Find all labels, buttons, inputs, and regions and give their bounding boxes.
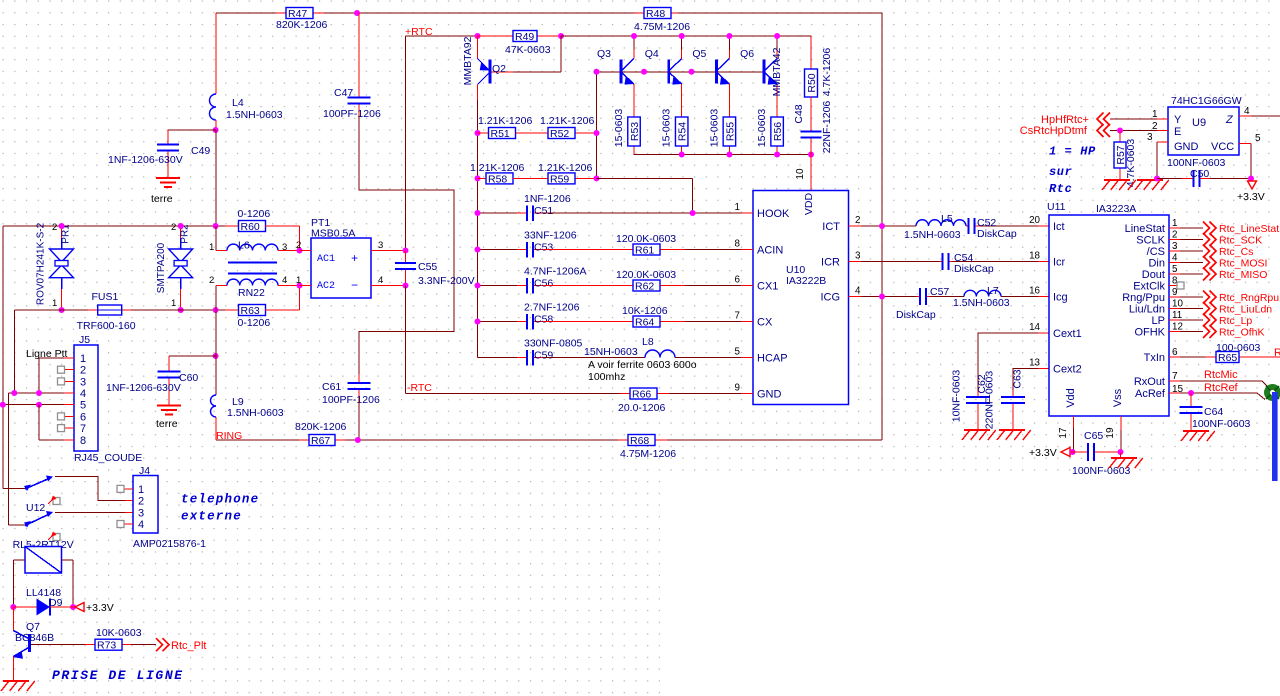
TVS PR2	[180, 226, 182, 238]
IC U9 74HC1G66GW box	[1168, 107, 1239, 155]
svg-text:2: 2	[209, 275, 214, 286]
wire CX1 row + resistor R62	[543, 285, 623, 287]
node bus C51	[475, 210, 481, 216]
svg-text:12: 12	[1172, 322, 1183, 333]
wire L9 top	[215, 310, 217, 356]
svg-text:4: 4	[1172, 253, 1178, 264]
svg-text:RJ45_COUDE: RJ45_COUDE	[74, 452, 142, 464]
svg-text:Icr: Icr	[1053, 257, 1066, 269]
svg-text:1.21K-1206: 1.21K-1206	[478, 115, 532, 127]
capacitor C48	[810, 97, 812, 132]
wire top rail y=13	[216, 12, 276, 14]
svg-text:3: 3	[80, 376, 86, 388]
no-connect ExtClk	[1177, 282, 1184, 289]
node R57 tap	[1117, 128, 1123, 134]
svg-text:3: 3	[1147, 132, 1153, 143]
wire Q7 base to R73	[31, 644, 85, 646]
svg-text:1.5NH-0603: 1.5NH-0603	[953, 297, 1010, 309]
net Rtc_SCK	[1203, 233, 1216, 246]
connector J4	[133, 476, 158, 534]
svg-text:PRISE DE LIGNE: PRISE DE LIGNE	[52, 668, 184, 683]
svg-text:externe: externe	[181, 510, 242, 524]
resistor R60	[225, 225, 239, 227]
svg-text:AMP0215876-1: AMP0215876-1	[133, 538, 206, 550]
svg-text:Rtc_Plt: Rtc_Plt	[171, 640, 206, 652]
inductor L7	[964, 290, 1001, 296]
ground (C64)	[1183, 430, 1209, 432]
wire R68/RING run y=440	[667, 439, 882, 441]
node L9 top	[213, 353, 219, 359]
node R bottom junction	[774, 152, 780, 158]
ground terre (C49)	[156, 177, 180, 179]
svg-text:100mhz: 100mhz	[588, 371, 625, 383]
svg-text:C55: C55	[418, 261, 437, 273]
transistor Q2 MMBTA92	[477, 36, 479, 59]
wire switch1 to J4 pin2	[55, 477, 125, 501]
svg-text:1: 1	[296, 275, 301, 286]
svg-text:R: R	[1274, 347, 1280, 359]
svg-text:VDD: VDD	[803, 192, 815, 215]
svg-text:10: 10	[1172, 299, 1183, 310]
svg-text:1NF-1206: 1NF-1206	[524, 193, 571, 205]
svg-text:Q3: Q3	[597, 48, 611, 60]
inductor RN22	[215, 286, 217, 311]
wire fuse rail y=310	[14, 309, 88, 311]
svg-text:Q4: Q4	[645, 48, 659, 60]
resistor R58	[478, 177, 487, 179]
svg-text:6: 6	[735, 275, 741, 286]
svg-text:1: 1	[52, 298, 57, 309]
svg-text:CX1: CX1	[757, 281, 778, 293]
svg-text:4: 4	[80, 388, 86, 400]
diode D9 LL4148	[13, 606, 36, 608]
resistor R48	[634, 12, 644, 14]
capacitor C59	[478, 357, 518, 359]
svg-text:C61: C61	[322, 381, 341, 393]
node D9 anode	[10, 604, 16, 610]
svg-text:C48: C48	[793, 104, 805, 123]
svg-text:8: 8	[735, 239, 741, 250]
resistor R51	[478, 132, 489, 134]
resistor R57	[1119, 131, 1121, 143]
transistor Q6	[763, 60, 766, 84]
svg-text:R62: R62	[635, 281, 654, 293]
svg-text:20: 20	[1029, 215, 1040, 226]
svg-text:10NF-0603: 10NF-0603	[951, 370, 963, 423]
svg-text:5: 5	[735, 347, 741, 358]
svg-text:11: 11	[1172, 310, 1182, 321]
node Q6 collector on rail	[774, 33, 780, 39]
svg-text:47K-0603: 47K-0603	[505, 44, 551, 56]
svg-text:MSB0.5A: MSB0.5A	[311, 228, 355, 240]
svg-text:0-1206: 0-1206	[238, 317, 271, 329]
svg-text:MMBTA92: MMBTA92	[462, 36, 474, 85]
capacitor C52	[966, 225, 969, 227]
svg-text:820K-1206: 820K-1206	[276, 19, 328, 31]
svg-text:+: +	[351, 252, 358, 266]
wire J5 pin8	[64, 439, 74, 441]
ground (C65)	[1111, 457, 1137, 459]
svg-text:0-1206: 0-1206	[238, 208, 271, 220]
node PR1 top	[59, 223, 65, 229]
switch2 actuator	[53, 534, 60, 541]
wire HCAP row + inductor L8	[543, 357, 645, 359]
svg-text:4.75M-1206: 4.75M-1206	[620, 448, 676, 460]
svg-text:3: 3	[138, 507, 144, 519]
svg-text:1.5NH-0603: 1.5NH-0603	[226, 109, 283, 121]
svg-text:RN22: RN22	[238, 287, 265, 299]
node rail/L4 junction	[213, 223, 219, 229]
svg-text:RtcMic: RtcMic	[1204, 369, 1238, 381]
svg-text:C64: C64	[1204, 406, 1223, 418]
capacitor C56	[478, 285, 518, 287]
svg-text:ROV07H241K-S-2: ROV07H241K-S-2	[36, 222, 47, 305]
node Q3 collector on rail	[631, 33, 637, 39]
svg-text:RtcRef: RtcRef	[1204, 382, 1239, 394]
svg-text:U9: U9	[1192, 117, 1206, 129]
svg-text:R49: R49	[515, 31, 534, 43]
node C48 bottom junction	[808, 152, 814, 158]
svg-text:L6: L6	[238, 240, 250, 252]
op-amp U10 IA3222B box	[753, 191, 849, 405]
svg-text:R50: R50	[806, 73, 818, 92]
svg-text:C58: C58	[534, 314, 553, 326]
svg-text:E: E	[1174, 126, 1181, 138]
wire Q2 base	[560, 36, 562, 72]
ground (C62)	[964, 429, 990, 431]
svg-text:20.0-1206: 20.0-1206	[618, 402, 665, 414]
node Vdd/+3.3V	[1070, 449, 1076, 455]
svg-text:Rtc_SCK: Rtc_SCK	[1219, 235, 1262, 247]
node pin5/left vertical	[0, 402, 6, 408]
svg-text:9: 9	[735, 383, 740, 394]
wire Q7 emitter to ground	[12, 657, 14, 682]
svg-text:15-0603: 15-0603	[661, 109, 673, 148]
svg-text:6: 6	[80, 411, 86, 423]
svg-text:R66: R66	[632, 389, 651, 401]
svg-text:HCAP: HCAP	[757, 353, 788, 365]
svg-text:6: 6	[1172, 347, 1178, 358]
svg-text:120.0K-0603: 120.0K-0603	[616, 269, 676, 281]
net Rtc_LiuLdn	[1203, 302, 1216, 315]
U10 pin 1 HOOK	[741, 212, 753, 214]
wire x=216 L4 to PR rail	[215, 130, 217, 226]
node pin4/pin1	[36, 390, 42, 396]
svg-text:4.7NF-1206A: 4.7NF-1206A	[524, 266, 586, 278]
relay switch U12-a	[25, 478, 51, 489]
svg-text:R63: R63	[241, 305, 260, 317]
capacitor C57	[917, 296, 921, 298]
svg-text:SCLK: SCLK	[1136, 235, 1165, 247]
resistor R54	[681, 146, 683, 155]
svg-text:4.75M-1206: 4.75M-1206	[634, 21, 690, 33]
wire x=8.5 down to switch2	[8, 393, 10, 525]
U10 pin 2 ICT	[849, 225, 862, 227]
svg-text:R55: R55	[724, 122, 736, 141]
svg-text:ICR: ICR	[821, 257, 840, 269]
node L4 bottom junction	[213, 127, 219, 133]
svg-text:ExtClk: ExtClk	[1133, 281, 1165, 293]
power +3.3V (U9)	[1248, 181, 1257, 189]
resistor R50	[810, 36, 812, 69]
net Rtc_Lp	[1203, 314, 1216, 327]
svg-text:Q6: Q6	[740, 48, 754, 60]
svg-text:2: 2	[52, 222, 57, 233]
svg-text:R51: R51	[491, 128, 510, 140]
svg-text:Rtc_OfhK: Rtc_OfhK	[1219, 327, 1265, 339]
resistor R55	[728, 146, 730, 155]
node bus C58	[475, 319, 481, 325]
svg-text:15-0603: 15-0603	[708, 109, 720, 148]
node R bottom junction	[726, 152, 732, 158]
svg-text:C59: C59	[534, 350, 553, 362]
svg-text:1NF-1206-630V: 1NF-1206-630V	[108, 154, 183, 166]
svg-text:15-0603: 15-0603	[756, 109, 768, 148]
svg-text:A voir ferrite 0603 600o: A voir ferrite 0603 600o	[588, 359, 697, 371]
svg-text:Q2: Q2	[492, 63, 506, 75]
svg-text:Cext2: Cext2	[1053, 364, 1082, 376]
svg-text:19: 19	[1105, 427, 1116, 439]
wire J5 pin1	[64, 357, 74, 359]
svg-text:telephone: telephone	[181, 493, 259, 507]
net CsRtcHpDtmf	[1097, 124, 1110, 137]
svg-text:DiskCap: DiskCap	[896, 309, 936, 321]
wire C61 to RING junction	[358, 398, 360, 440]
wire ACIN row + resistor R61	[543, 249, 623, 251]
svg-text:2: 2	[296, 240, 301, 251]
wire ICG row	[861, 296, 917, 298]
svg-text:MMBTA42: MMBTA42	[771, 47, 783, 96]
U10 pin 7 CX	[741, 321, 753, 323]
svg-text:L5: L5	[941, 213, 953, 225]
node bus C56	[475, 283, 481, 289]
svg-text:1: 1	[171, 298, 176, 309]
svg-text:C50: C50	[1190, 168, 1209, 180]
svg-text:Rng/Ppu: Rng/Ppu	[1122, 292, 1165, 304]
net Rtc_MISO	[1203, 268, 1216, 281]
resistor R59	[575, 177, 597, 179]
svg-text:5: 5	[80, 400, 86, 412]
transistor Q4	[667, 60, 670, 84]
svg-text:FUS1: FUS1	[92, 291, 119, 303]
svg-text:terre: terre	[156, 418, 178, 430]
svg-text:C63: C63	[1012, 369, 1024, 388]
net Rtc_MOSI	[1203, 256, 1216, 269]
svg-text:ICG: ICG	[820, 292, 840, 304]
node Vss/gnd	[1118, 449, 1124, 455]
ground (Q7)	[3, 680, 29, 682]
svg-text:1.5NH-0603: 1.5NH-0603	[904, 229, 961, 241]
wire rail to R50	[561, 35, 811, 37]
wire J5 pin4	[64, 392, 74, 394]
svg-text:4.7K-1206: 4.7K-1206	[821, 48, 833, 97]
svg-text:Rtc_Cs: Rtc_Cs	[1219, 246, 1253, 258]
no-connect J4 pin1	[125, 488, 133, 490]
node pin5/pin8	[36, 402, 42, 408]
resistor R53	[633, 146, 635, 155]
svg-text:1: 1	[138, 484, 144, 496]
node R49 right / base tap	[558, 33, 564, 39]
svg-text:14: 14	[1029, 322, 1040, 333]
svg-text:2: 2	[171, 222, 176, 233]
wire CX row + resistor R64	[543, 321, 623, 323]
svg-text:AC1: AC1	[317, 254, 335, 265]
capacitor C60	[168, 356, 170, 372]
node D9 cathode	[70, 604, 76, 610]
capacitor C65	[1070, 451, 1088, 453]
svg-text:Q5: Q5	[692, 48, 706, 60]
svg-text:/CS: /CS	[1147, 246, 1165, 258]
svg-text:DiskCap: DiskCap	[954, 263, 994, 275]
inductor L9	[211, 395, 217, 417]
svg-text:74HC1G66GW: 74HC1G66GW	[1171, 95, 1242, 107]
svg-text:RxOut: RxOut	[1134, 376, 1165, 388]
wire L4 to C49	[168, 129, 216, 131]
node PT1 pin1 junction	[297, 283, 303, 289]
svg-text:1: 1	[1152, 109, 1158, 120]
svg-text:R67: R67	[311, 435, 330, 447]
svg-text:R53: R53	[629, 122, 641, 141]
svg-text:DiskCap: DiskCap	[977, 228, 1017, 240]
svg-text:7: 7	[1172, 371, 1178, 382]
pad (green via)	[1264, 384, 1280, 401]
resistor R68	[618, 439, 628, 441]
svg-text:R61: R61	[635, 245, 654, 257]
svg-text:220NF-0603: 220NF-0603	[984, 371, 996, 430]
svg-text:Vss: Vss	[1112, 388, 1124, 407]
svg-text:1: 1	[1172, 218, 1177, 229]
node bus/R51	[475, 130, 481, 136]
svg-text:Rtc_MOSI: Rtc_MOSI	[1219, 258, 1267, 270]
node junction top rail / C47	[354, 10, 360, 16]
svg-text:15NH-0603: 15NH-0603	[584, 346, 638, 358]
svg-text:9: 9	[1172, 287, 1177, 298]
svg-text:AC2: AC2	[317, 281, 335, 292]
wire relay right	[62, 559, 74, 561]
svg-text:4: 4	[1244, 106, 1250, 117]
no-connect J5 pin 6	[58, 413, 65, 420]
ground terre (C60)	[157, 405, 181, 407]
svg-text:1.21K-1206: 1.21K-1206	[538, 162, 592, 174]
svg-text:Liu/Ldn: Liu/Ldn	[1129, 304, 1165, 316]
svg-text:1.5NH-0603: 1.5NH-0603	[227, 407, 284, 419]
capacitor C61	[358, 374, 360, 383]
capacitor C55	[405, 251, 407, 264]
svg-text:4: 4	[378, 275, 383, 286]
transistor Q7 BC846B	[28, 634, 31, 652]
svg-text:-RTC: -RTC	[407, 382, 432, 394]
svg-text:+3.3V: +3.3V	[86, 602, 114, 614]
inductor L6	[215, 226, 217, 251]
node pin4/fuse vertical	[11, 390, 17, 396]
no-connect J4 pin4	[125, 523, 133, 525]
no-connect J5 pin 3	[58, 378, 65, 385]
transformer PT1	[311, 238, 371, 298]
svg-text:R56: R56	[772, 122, 784, 141]
svg-text:Rtc: Rtc	[1049, 182, 1072, 196]
svg-text:330NF-0805: 330NF-0805	[524, 338, 583, 350]
wire U9 gnd/vcc bottom y=178.5	[1157, 178, 1182, 180]
svg-text:IA3222B: IA3222B	[786, 275, 826, 287]
wire switch2 to J4 pin3	[55, 511, 125, 513]
net HpHfRtc+	[1097, 113, 1110, 126]
svg-text:C53: C53	[534, 242, 553, 254]
capacitor C62	[977, 390, 979, 397]
svg-text:17: 17	[1058, 427, 1069, 439]
svg-text:Y: Y	[1174, 114, 1182, 126]
svg-text:TxIn: TxIn	[1144, 352, 1165, 364]
svg-text:100NF-0603: 100NF-0603	[1192, 418, 1251, 430]
no-connect J5 pin 7	[58, 425, 65, 432]
svg-text:U11: U11	[1047, 201, 1066, 213]
wire R59 to HOOK	[597, 177, 693, 179]
svg-text:IA3223A: IA3223A	[1096, 203, 1136, 215]
svg-text:Din: Din	[1148, 258, 1165, 270]
svg-text:Icg: Icg	[1053, 292, 1068, 304]
capacitor C63	[1012, 390, 1014, 397]
svg-text:R54: R54	[677, 122, 689, 141]
resistor R73	[85, 644, 95, 646]
wire base bus dots	[594, 69, 600, 75]
capacitor C53	[478, 249, 518, 251]
svg-text:U12: U12	[26, 502, 45, 514]
svg-text:Rtc_MISO: Rtc_MISO	[1219, 269, 1267, 281]
svg-text:LP: LP	[1152, 315, 1165, 327]
svg-text:10K-1206: 10K-1206	[622, 305, 668, 317]
node bus/R58	[475, 175, 481, 181]
svg-text:4: 4	[138, 519, 144, 531]
svg-text:+3.3V: +3.3V	[1029, 447, 1057, 459]
svg-text:100-0603: 100-0603	[1216, 342, 1261, 354]
wire HOOK row	[543, 212, 741, 214]
node bus C53	[475, 247, 481, 253]
svg-text:CsRtcHpDtmf: CsRtcHpDtmf	[1020, 125, 1088, 137]
capacitor C50	[1182, 178, 1194, 180]
svg-text:2: 2	[80, 365, 86, 377]
capacitor C49	[167, 130, 169, 145]
node ICG/vertical	[879, 294, 885, 300]
svg-text:Dout: Dout	[1142, 269, 1165, 281]
connector J5 RJ45_COUDE	[74, 345, 98, 451]
node ICT/vertical	[879, 223, 885, 229]
net Rtc_OfhK	[1203, 325, 1216, 338]
resistor R47	[276, 12, 286, 14]
node AcRef/C64	[1188, 390, 1194, 396]
wire -RTC vertical	[405, 286, 407, 394]
svg-text:R59: R59	[550, 173, 569, 185]
svg-text:3: 3	[1172, 241, 1178, 252]
svg-text:16: 16	[1029, 286, 1040, 297]
resistor R65	[1205, 356, 1216, 358]
svg-text:4: 4	[855, 286, 861, 297]
node PR1 bottom	[59, 307, 65, 313]
svg-text:120.0K-0603: 120.0K-0603	[616, 233, 676, 245]
blue bus bar at right edge	[1272, 392, 1278, 481]
resistor R49	[478, 35, 514, 37]
svg-text:Rtc_LineStat: Rtc_LineStat	[1219, 223, 1279, 235]
svg-text:J4: J4	[139, 465, 150, 477]
svg-text:5: 5	[1255, 133, 1261, 144]
no-connect J5 pin 2	[58, 366, 65, 373]
svg-text:R68: R68	[630, 435, 649, 447]
wire -RTC to R66 to GND pin	[406, 393, 621, 395]
svg-text:Cext1: Cext1	[1053, 328, 1082, 340]
svg-text:SMTPA200: SMTPA200	[156, 242, 167, 293]
net Rtc_RngRpu	[1203, 291, 1216, 304]
wire ICR row	[861, 261, 940, 263]
capacitor C64	[1190, 393, 1192, 407]
svg-text:AcRef: AcRef	[1135, 388, 1166, 400]
